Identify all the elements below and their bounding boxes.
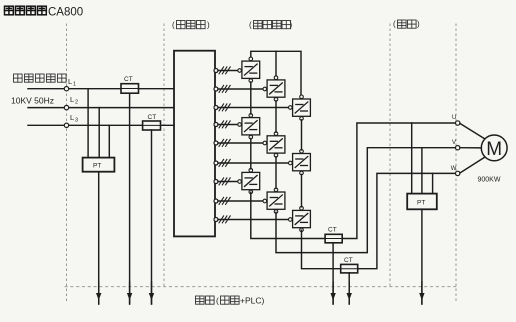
- svg-text:(: (: [393, 20, 396, 29]
- wire CT output C secondary: [348, 273, 350, 304]
- label copyright 版权所有CA800: [5, 6, 84, 18]
- motor M: [481, 135, 507, 161]
- dashed boundary vertical right: [455, 24, 457, 301]
- wire PT2 tap U: [411, 123, 413, 194]
- power cell UC1: [289, 95, 311, 120]
- power cell UA2: [238, 114, 260, 139]
- arrow CT output A: [330, 282, 335, 304]
- svg-text:CT: CT: [148, 114, 157, 121]
- svg-text:): ): [207, 21, 210, 30]
- wire secondary row 3: [218, 107, 289, 109]
- arrow PT2 secondary: [419, 282, 424, 304]
- phase B output run: [276, 148, 456, 253]
- svg-text:1: 1: [73, 82, 76, 88]
- wire secondary row 4: [218, 124, 238, 126]
- dashed boundary vertical 3: [389, 24, 391, 286]
- svg-text:CA800: CA800: [48, 6, 83, 18]
- wire secondary row 1: [218, 70, 238, 72]
- wire secondary row 9: [218, 219, 289, 221]
- svg-text:10KV 50Hz: 10KV 50Hz: [11, 96, 54, 106]
- svg-text:(: (: [172, 21, 175, 30]
- svg-text:+PLC): +PLC): [240, 296, 264, 306]
- label (功率单元): [249, 21, 293, 30]
- arrow PT secondary: [96, 282, 101, 304]
- svg-text:): ): [290, 21, 293, 30]
- wire PT tap from L2: [98, 108, 100, 158]
- node transformer secondary 1: [214, 69, 218, 73]
- node L3 label: [70, 113, 78, 124]
- label 控制(微机+PLC): [196, 296, 265, 306]
- node L1 terminal: [64, 87, 68, 91]
- wire L2: [28, 107, 174, 109]
- wire PT secondary down: [98, 172, 100, 304]
- wire secondary row 7: [218, 181, 238, 183]
- svg-text:L: L: [68, 77, 72, 86]
- svg-text:L: L: [70, 113, 74, 122]
- hatch marks row 9: [219, 216, 230, 223]
- wire chain 1 seg2: [250, 139, 252, 169]
- svg-text:V: V: [452, 140, 456, 146]
- power cell UB2: [263, 132, 285, 157]
- svg-text:CT: CT: [124, 76, 133, 83]
- svg-text:): ): [417, 20, 420, 29]
- transformer T1 input isolation box: [174, 51, 215, 237]
- wire U to motor: [460, 123, 485, 139]
- hatch marks row 2: [219, 85, 230, 92]
- CT current transformer output C: [341, 264, 358, 273]
- wire chain 3 seg2: [301, 174, 303, 206]
- power cell UB1: [263, 76, 285, 101]
- svg-text:2: 2: [75, 100, 78, 106]
- wire secondary row 5: [218, 142, 263, 144]
- node L1 label: [68, 77, 76, 88]
- node L2 label: [70, 95, 78, 106]
- power cell UB3: [263, 188, 285, 213]
- node transformer secondary 2: [214, 87, 218, 91]
- hatch marks row 3: [219, 104, 230, 111]
- wire PT tap from L1: [87, 89, 89, 158]
- wire PT2 secondary down: [421, 209, 423, 304]
- power cell UA1: [238, 57, 260, 82]
- dashed boundary vertical left: [66, 24, 68, 301]
- svg-text:PT: PT: [93, 163, 101, 170]
- node transformer secondary 4: [214, 123, 218, 127]
- wire PT2 tap V: [421, 148, 423, 194]
- arrow CT output C: [347, 282, 352, 304]
- svg-text:L: L: [70, 95, 74, 104]
- wire chain 1 seg1: [250, 82, 252, 114]
- hatch marks row 6: [219, 159, 230, 166]
- wire W to motor: [460, 157, 485, 173]
- label (变压器): [172, 21, 210, 30]
- wire secondary row 8: [218, 200, 263, 202]
- wire chain 2 seg2: [275, 157, 277, 189]
- wire chain 3 seg1: [301, 120, 303, 150]
- svg-text:CT: CT: [328, 227, 337, 234]
- node transformer secondary 6: [214, 161, 218, 165]
- node V terminal: [456, 146, 460, 150]
- hatch marks row 4: [219, 121, 230, 128]
- svg-text:900KW: 900KW: [478, 177, 501, 184]
- hatch marks row 5: [219, 139, 230, 146]
- node transformer secondary 9: [214, 218, 218, 222]
- CT current transformer output A: [325, 234, 342, 243]
- svg-text:CT: CT: [344, 257, 353, 264]
- svg-text:U: U: [452, 115, 456, 121]
- node U terminal: [456, 121, 460, 125]
- dashed boundary vertical 2: [163, 24, 165, 286]
- neutral drop col2: [275, 51, 277, 77]
- node transformer secondary 3: [214, 106, 218, 110]
- PT potential transformer left: [83, 158, 115, 172]
- wire L3: [28, 124, 174, 126]
- phase C output run: [302, 173, 456, 268]
- arrow CT L3 secondary: [149, 282, 154, 304]
- node W terminal: [456, 171, 460, 175]
- power cell UC3: [289, 206, 311, 231]
- phase A output run: [251, 123, 456, 239]
- CT current transformer on L1: [121, 84, 139, 94]
- wire CT L1 secondary down: [129, 93, 131, 304]
- CT current transformer on L3: [143, 121, 161, 130]
- wire secondary row 2: [218, 88, 263, 90]
- hatch marks row 8: [219, 197, 230, 204]
- arrow CT L1 secondary: [127, 282, 132, 304]
- wire CT L3 secondary down: [151, 130, 153, 304]
- wire secondary row 6: [218, 162, 289, 164]
- label (输出): [393, 20, 420, 29]
- svg-text:M: M: [486, 139, 502, 160]
- svg-text:3: 3: [75, 118, 78, 124]
- wire L1: [28, 88, 174, 90]
- power cell UC2: [289, 150, 311, 175]
- svg-text:PT: PT: [417, 200, 425, 207]
- svg-text:W: W: [451, 166, 457, 172]
- wire chain 2 seg1: [275, 101, 277, 132]
- wire PT2 tap W: [432, 173, 434, 193]
- neutral bus wire: [251, 51, 301, 96]
- node L2 terminal: [64, 105, 68, 109]
- wire CT output A secondary: [332, 243, 334, 304]
- label 车间输电网: [14, 74, 67, 82]
- hatch marks row 7: [219, 178, 230, 185]
- dashed boundary horizontal bottom: [65, 286, 456, 288]
- node transformer secondary 5: [214, 141, 218, 145]
- power cell UA3: [238, 168, 260, 193]
- node transformer secondary 8: [214, 199, 218, 203]
- wire PT tap from L3: [108, 125, 110, 157]
- node transformer secondary 7: [214, 180, 218, 184]
- wire V to motor: [460, 147, 481, 149]
- svg-text:(: (: [249, 21, 252, 30]
- svg-text:(: (: [216, 296, 219, 306]
- PT potential transformer output: [407, 194, 437, 210]
- node L3 terminal: [64, 123, 68, 127]
- hatch marks row 1: [219, 67, 230, 74]
